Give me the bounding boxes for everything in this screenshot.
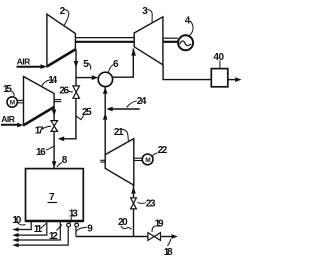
port 12 wire to left arrow [18, 221, 61, 240]
motor 15 [7, 97, 17, 107]
wire box 40 outlet arrow [228, 79, 236, 81]
svg-text:AIR: AIR [17, 56, 31, 66]
generator 4 [178, 35, 193, 50]
shaft motor 15 to compressor 14 [17, 99, 23, 101]
mixer circle 6 [98, 72, 112, 86]
wire line 16 down into reactor 7 [53, 131, 55, 168]
svg-text:M: M [145, 157, 150, 164]
shaft stub left of blower 21 [100, 159, 105, 161]
svg-text:AIR: AIR [1, 114, 15, 124]
port 13 (circle) and wire to left arrow [67, 223, 71, 227]
shaft stub right of compressor 14 [54, 99, 61, 101]
wire compressor 2 discharge down (line 5) [75, 49, 77, 86]
compressor 14 [24, 77, 55, 126]
wire line 25 down and left arrow into line 16 [64, 98, 76, 139]
valve 17 [51, 121, 58, 126]
shaft compressor 2 to turbine 3 [75, 37, 134, 39]
wire mixer 6 to turbine 3 inlet [113, 49, 134, 78]
wire compressor 14 outlet down to valve 17 [53, 107, 55, 121]
shaft blower 21 to motor 22 [134, 157, 143, 159]
wire line 20 up into blower 21 [133, 185, 135, 236]
svg-text:3: 3 [142, 6, 148, 17]
wire AIR inlet to compressor 14 [1, 124, 19, 126]
reactor box 7 [26, 169, 84, 221]
turbine 3 [134, 17, 163, 65]
valve 26 [73, 86, 80, 92]
port 10 wire to left arrow [18, 221, 31, 230]
box 40 [211, 69, 228, 87]
svg-text:8: 8 [62, 155, 68, 166]
svg-text:M: M [10, 99, 15, 106]
wire bottom line 9 to valve 19 and outlet 18 [76, 236, 148, 238]
svg-text:2: 2 [60, 6, 66, 17]
valve 19 [148, 233, 154, 241]
svg-text:7: 7 [49, 192, 55, 203]
port 9 (circle) and wire down [75, 223, 79, 227]
compressor 2 [47, 14, 76, 66]
valve 23 [131, 198, 137, 204]
wire turbine 3 exhaust to box 40 [163, 65, 211, 80]
svg-text:5: 5 [83, 59, 89, 70]
svg-text:9: 9 [87, 223, 93, 234]
shaft turbine 3 to generator 4 [163, 37, 178, 39]
svg-text:6: 6 [113, 59, 119, 70]
wire line 24 with left arrow [112, 108, 140, 110]
blower 21 [105, 139, 134, 186]
wire branch to mixer 6 [76, 77, 93, 79]
wire blower 21 discharge up to mixer 6 [104, 87, 106, 155]
svg-text:4: 4 [185, 15, 191, 26]
port 11 wire to left arrow [18, 221, 47, 235]
motor 22 [142, 154, 153, 165]
wire AIR inlet to compressor 2 [17, 66, 42, 68]
svg-text:40: 40 [213, 52, 224, 63]
